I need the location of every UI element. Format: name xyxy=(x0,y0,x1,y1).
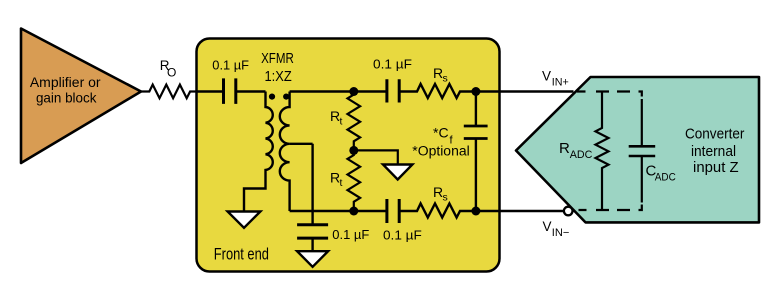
svg-text:O: O xyxy=(167,66,176,80)
svg-text:internal: internal xyxy=(691,143,736,160)
svg-text:t: t xyxy=(340,177,343,189)
svg-text:Amplifier or: Amplifier or xyxy=(30,74,101,90)
svg-text:input Z: input Z xyxy=(693,159,739,176)
svg-text:0.1 µF: 0.1 µF xyxy=(383,229,422,243)
svg-text:0.1 µF: 0.1 µF xyxy=(332,228,369,242)
svg-text:XFMR: XFMR xyxy=(261,50,294,67)
svg-text:s: s xyxy=(443,192,448,204)
svg-text:IN−: IN− xyxy=(552,227,570,239)
svg-text:t: t xyxy=(340,116,343,128)
svg-text:gain block: gain block xyxy=(36,90,97,106)
svg-text:1:XZ: 1:XZ xyxy=(265,68,292,85)
svg-text:*C: *C xyxy=(433,125,449,141)
svg-text:ADC: ADC xyxy=(570,149,593,161)
svg-text:s: s xyxy=(443,73,448,85)
svg-text:ADC: ADC xyxy=(655,172,676,184)
svg-text:0.1 µF: 0.1 µF xyxy=(212,59,249,73)
svg-text:R: R xyxy=(559,140,570,157)
svg-text:V: V xyxy=(542,69,551,84)
svg-text:Front end: Front end xyxy=(214,244,269,263)
svg-text:V: V xyxy=(543,219,552,234)
svg-text:IN+: IN+ xyxy=(552,77,569,89)
svg-text:*Optional: *Optional xyxy=(412,143,469,158)
svg-text:0.1 µF: 0.1 µF xyxy=(373,58,412,72)
svg-text:Converter: Converter xyxy=(685,126,745,143)
